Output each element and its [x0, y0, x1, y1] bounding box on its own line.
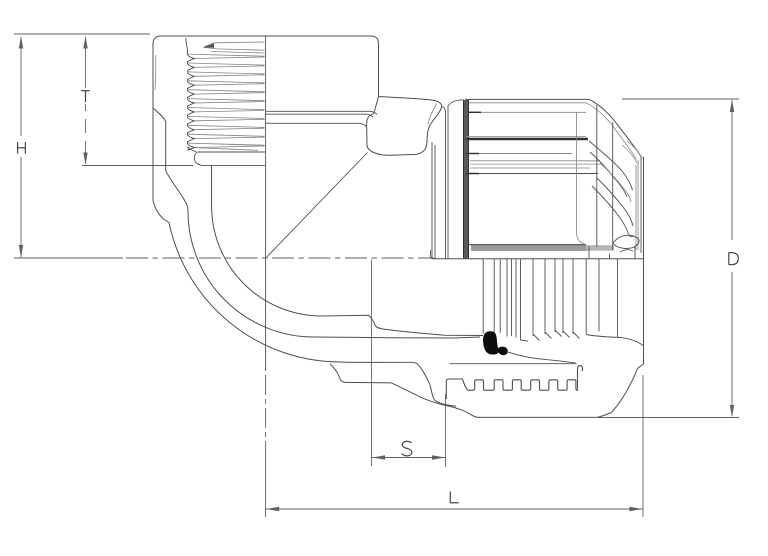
- dimension S extension line (right): [445, 394, 447, 467]
- body right end cap chamfer: [597, 364, 644, 417]
- grip-ring upper line: [450, 363, 577, 365]
- flange vertical 1: [431, 142, 433, 259]
- dimension T extension line (bottom of threads): [82, 165, 193, 167]
- dimension T line: [85, 37, 87, 163]
- hex body (wrench flats) outline: [367, 97, 442, 156]
- dimension L label: [450, 492, 458, 503]
- nut chamfer tangent vertical 4: [635, 165, 637, 250]
- collet / thread verticals in section: [483, 259, 617, 340]
- thread bore bottom and relief groove: [194, 152, 264, 165]
- insert cap line to right edge: [586, 335, 643, 346]
- section cut bottom edge at centreline: [431, 256, 644, 258]
- small edge ticks near centreline: [589, 246, 635, 259]
- neck ring line 3: [266, 123, 367, 127]
- nut chamfer tangent vertical 3: [612, 122, 614, 250]
- nut rib line a: [469, 111, 586, 113]
- flange vertical 4 with top arc: [448, 100, 464, 259]
- dimension H label: [18, 142, 26, 154]
- dimension H line: [20, 37, 22, 257]
- dimension L arrowheads: [266, 507, 279, 511]
- nut chamfer tangent vertical 2: [596, 105, 598, 247]
- nut thick rib band: [466, 136, 586, 138]
- nut lower dark band: [471, 244, 586, 251]
- o-ring (section, filled): [483, 331, 508, 355]
- dimension D arrowheads: [730, 99, 734, 112]
- top nut left chamfer tick: [154, 55, 157, 90]
- seal seat line below o-ring: [507, 352, 576, 363]
- hex chamfer diagonal: [267, 153, 368, 258]
- top nut left edge: [152, 44, 154, 201]
- nut rib line e: [466, 173, 598, 175]
- dimension H extension line (bottom, to centreline): [14, 257, 123, 259]
- dimension T label: [81, 91, 90, 103]
- dimension H extension line (top): [14, 33, 150, 35]
- socket shoulder line: [212, 164, 265, 166]
- dimension D line: [731, 101, 733, 417]
- dimension T arrowheads: [83, 36, 87, 49]
- dimension D extension line (top): [622, 98, 739, 100]
- dimension L line: [266, 508, 643, 510]
- neck ring line 1: [266, 111, 377, 114]
- vertical centreline lower part / L extension: [265, 375, 267, 460]
- collet finger zig-zag tips: [521, 330, 580, 341]
- elbow outer profile (left silhouette, outer bend arc, spigot face): [153, 201, 456, 407]
- nut corner rib wave 1: [589, 141, 633, 197]
- internal thread scalloped left flank: [186, 38, 196, 152]
- top nut outline: [153, 36, 379, 96]
- vertical centreline / section boundary: [265, 36, 267, 371]
- elbow neck profile / tube upper silhouette: [153, 108, 480, 338]
- dimension S line: [372, 457, 445, 459]
- dimension H arrowheads: [19, 36, 23, 49]
- dimension D extension line (bottom): [597, 417, 739, 419]
- grip-ring ledge and saw teeth: [446, 366, 582, 399]
- dimension S extension line (left): [370, 260, 372, 467]
- nut top-right chamfer outer: [589, 99, 641, 156]
- nut rib line d: [470, 167, 590, 169]
- nut rib line c pair: [470, 160, 600, 162]
- dimension L extension line (right): [642, 375, 644, 517]
- nut corner bead top: [622, 141, 642, 163]
- nut right edge inner: [640, 157, 642, 254]
- nut dark left face band: [464, 100, 469, 259]
- dimension S label: [402, 441, 412, 456]
- horizontal centreline: [126, 257, 434, 259]
- nut chamfer tangent vertical 1: [577, 112, 586, 244]
- nut right edge outer: [643, 157, 645, 364]
- nut corner pocket: [613, 235, 639, 252]
- flange vertical 3 with top arc: [442, 107, 446, 260]
- dimension D label: [729, 253, 739, 265]
- thread lead-in dark tip: [203, 43, 214, 47]
- nut corner rib wave 3: [600, 163, 631, 202]
- nut corner rib wave 2: [592, 178, 634, 237]
- elbow bore profile: [212, 165, 483, 335]
- neck ring line 2: [266, 114, 373, 117]
- internal thread crest/root lines: [188, 42, 265, 150]
- nut top inner edge: [469, 102, 586, 104]
- nut top-right chamfer inner: [586, 103, 637, 160]
- body lower step to grip section and body bottom: [330, 364, 597, 418]
- nut rib line b: [466, 153, 572, 155]
- nut top edge: [465, 98, 589, 100]
- dimension S arrowheads: [372, 455, 385, 459]
- flange vertical 2: [434, 145, 436, 259]
- hex body inner chamfer curve: [428, 104, 437, 125]
